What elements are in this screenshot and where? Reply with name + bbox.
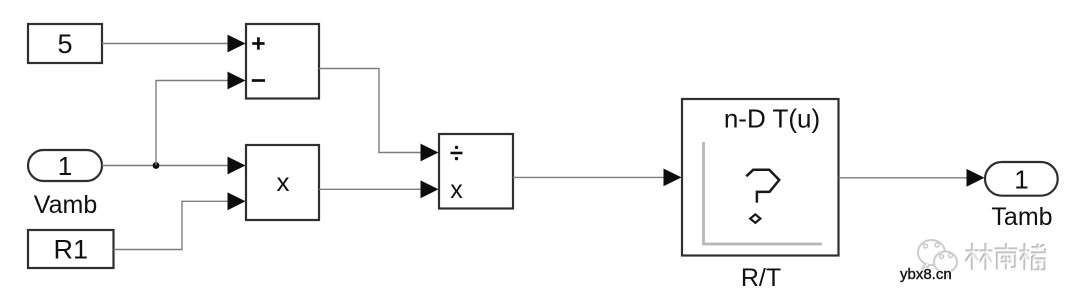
svg-text:5: 5: [57, 29, 72, 59]
input port 1 (Vamb): [28, 150, 102, 181]
constant block R1: [28, 230, 114, 268]
svg-text:ybx8.cn: ybx8.cn: [900, 266, 952, 283]
plus sign: [252, 42, 264, 45]
wire sum to divide input 1: [319, 69, 421, 153]
n-D lookup table block R/T: [682, 99, 839, 256]
wire product to divide input 2: [319, 188, 421, 190]
arrowhead divide input 1: [421, 144, 439, 162]
icon axis: [704, 142, 823, 244]
wire R1 to product input 2: [114, 201, 229, 249]
wire lookup table to output port: [839, 177, 968, 179]
watermark text 林南橘 gray strokes: [966, 243, 1046, 270]
wire divide to lookup table: [513, 176, 664, 178]
svg-text:1: 1: [58, 151, 72, 181]
sum block: [246, 24, 319, 99]
arrowhead lookup table input: [664, 169, 682, 187]
constant block 5: [28, 24, 102, 63]
minus sign: [252, 79, 265, 82]
arrowhead product input 1: [228, 157, 246, 175]
svg-text:R/T: R/T: [741, 264, 781, 292]
arrowhead divide input 2: [421, 180, 439, 198]
watermark text ybx8.cn white glow copies: [900, 266, 952, 283]
wire constant 5 to sum + input: [102, 43, 228, 45]
icon question mark: [746, 170, 779, 203]
svg-text:Vamb: Vamb: [34, 191, 97, 219]
svg-text:n-D T(u): n-D T(u): [724, 104, 820, 134]
svg-text:Tamb: Tamb: [991, 203, 1052, 231]
arrowhead sum + input: [228, 35, 246, 53]
product block: [246, 145, 319, 220]
watermark logo eyes: [924, 243, 953, 259]
arrowhead sum - input: [228, 72, 246, 90]
svg-text:R1: R1: [54, 235, 89, 265]
wire Vamb to product input 1: [102, 165, 228, 167]
arrowhead output port: [967, 169, 985, 187]
icon diamond: [750, 214, 760, 222]
watermark text 林南橘 white emboss highlight: [967, 245, 1047, 272]
watermark logo wechat bubbles: [918, 240, 957, 277]
divide block: [439, 134, 513, 209]
arrowhead product input 2: [228, 192, 246, 210]
output port 1 (Tamb): [985, 162, 1058, 196]
divide sign: [451, 152, 463, 155]
junction dot: [153, 162, 160, 169]
wire junction up to sum - input: [156, 81, 228, 166]
svg-text:x: x: [277, 167, 290, 197]
svg-text:x: x: [450, 176, 463, 204]
svg-text:1: 1: [1014, 164, 1028, 194]
